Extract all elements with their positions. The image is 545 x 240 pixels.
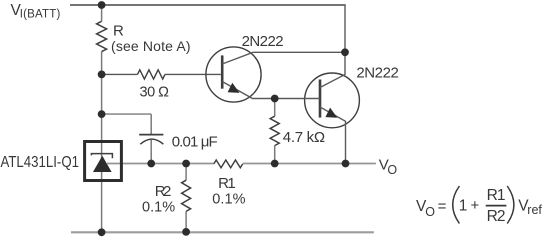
svg-text:=: = (438, 198, 447, 215)
svg-text:I(BATT): I(BATT) (20, 9, 61, 21)
svg-text:O: O (387, 163, 397, 177)
svg-text:R1: R1 (218, 175, 236, 192)
svg-text:0.1%: 0.1% (212, 192, 245, 208)
svg-text:2N222: 2N222 (242, 33, 284, 50)
svg-text:0.1%: 0.1% (142, 199, 175, 215)
svg-text:+: + (471, 197, 480, 214)
svg-text:2N222: 2N222 (356, 64, 398, 81)
svg-text:ref: ref (527, 203, 542, 217)
svg-text:ATL431LI-Q1: ATL431LI-Q1 (1, 154, 80, 171)
svg-text:1: 1 (459, 198, 468, 215)
svg-text:30 Ω: 30 Ω (140, 85, 170, 101)
svg-text:(see Note A): (see Note A) (111, 38, 191, 54)
svg-text:R2: R2 (487, 208, 506, 225)
svg-text:R1: R1 (487, 187, 506, 204)
svg-text:O: O (425, 205, 435, 219)
svg-text:4.7 kΩ: 4.7 kΩ (283, 129, 325, 146)
svg-text:0.01 μF: 0.01 μF (172, 134, 218, 151)
svg-text:R2: R2 (155, 183, 172, 200)
